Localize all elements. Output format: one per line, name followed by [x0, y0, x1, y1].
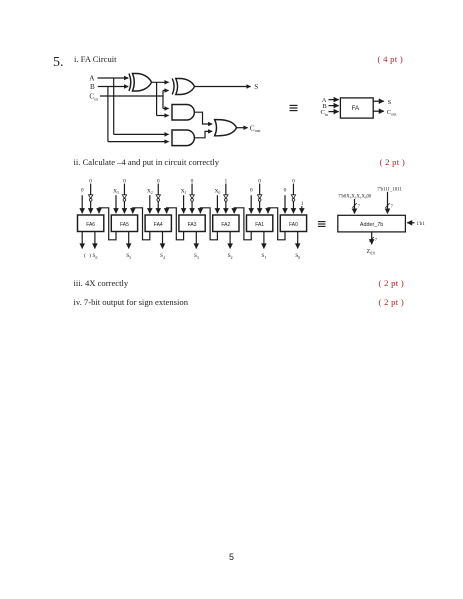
inverter on FA0 middle input — [291, 195, 295, 201]
wire A to XOR1 — [98, 77, 129, 79]
inverter on FA5 middle input — [122, 195, 126, 201]
wire Cin to XOR2 lower — [163, 90, 169, 92]
svg-text:Adder_7b: Adder_7b — [360, 222, 383, 228]
svg-text:7: 7 — [391, 203, 394, 208]
wire carry from FA0 to FA1 — [268, 208, 285, 240]
svg-text:S2: S2 — [228, 253, 233, 260]
xor gate U1 (A xor B) — [129, 74, 152, 92]
svg-text:Cout: Cout — [387, 109, 398, 117]
inverter on FA6 middle input — [88, 195, 92, 201]
wire carry-in 1'b1 — [407, 222, 414, 224]
svg-text:7: 7 — [375, 237, 378, 242]
svg-text:Cin: Cin — [321, 109, 330, 117]
wire -5 constant bus into adder — [387, 192, 389, 214]
wire FA6 middle input — [90, 184, 92, 214]
xor gate U2 (sum) — [172, 79, 194, 95]
points (4 pt) — [378, 54, 404, 64]
wire S output — [195, 86, 251, 88]
wire FA6 sum output — [94, 232, 96, 249]
svg-text:X3: X3 — [113, 189, 119, 196]
wire A to AND2 upper — [114, 133, 169, 135]
wire FA1 left input — [250, 195, 252, 213]
wire FA2 middle input — [225, 184, 227, 214]
points (2 pt) — [379, 297, 405, 307]
svg-text:0: 0 — [191, 178, 194, 184]
wire FA3 left input — [183, 195, 185, 213]
equivalence symbol — [290, 105, 298, 110]
svg-text:S4: S4 — [160, 253, 165, 260]
wire B into FA box — [329, 105, 339, 107]
svg-text:0: 0 — [250, 188, 253, 194]
inverter on FA3 middle input — [190, 195, 194, 201]
adder block Adder_7b — [338, 215, 406, 232]
svg-text:Cout: Cout — [250, 124, 261, 133]
question number 5 — [53, 55, 64, 71]
wire FA5 middle input — [123, 184, 125, 214]
wire carry from FA2 to FA3 — [200, 208, 217, 240]
svg-text:0: 0 — [258, 178, 261, 184]
svg-text:7'b0X3X2X1X000: 7'b0X3X2X1X000 — [338, 194, 372, 199]
wire FA0 sum output — [297, 232, 299, 249]
points (2 pt) — [379, 278, 405, 288]
full-adder block FA4 — [145, 215, 171, 232]
svg-text:1'b1: 1'b1 — [416, 222, 425, 227]
svg-text:FA5: FA5 — [120, 222, 129, 228]
svg-text:A: A — [89, 75, 95, 83]
wire FA1 sum output — [263, 232, 265, 249]
svg-text:X0: X0 — [215, 189, 221, 196]
wire carry from FA3 to FA4 — [167, 208, 184, 240]
inverter on FA2 middle input — [224, 195, 228, 201]
wire FA4 left input — [149, 195, 151, 213]
svg-text:Z6:0: Z6:0 — [367, 249, 376, 256]
svg-text:0: 0 — [89, 178, 92, 184]
wire XOR1 out tap down — [156, 82, 158, 115]
wire FA5 sum output — [128, 232, 130, 249]
svg-text:S1: S1 — [261, 253, 266, 260]
wire A into FA box — [329, 99, 339, 101]
full-adder block FA0 — [280, 215, 306, 232]
wire Cin into FA box — [329, 111, 339, 113]
svg-text:FA6: FA6 — [86, 222, 95, 228]
svg-text:0: 0 — [292, 178, 295, 184]
wire FA0 middle input — [292, 184, 294, 214]
wire A tap down — [113, 78, 115, 134]
svg-text:0: 0 — [81, 188, 84, 194]
svg-text:FA0: FA0 — [289, 222, 298, 228]
svg-text:1: 1 — [224, 178, 227, 184]
wire Cout output — [237, 127, 248, 129]
wire Z output bus — [371, 232, 373, 244]
svg-text:( ): ( ) — [84, 252, 91, 259]
full-adder block FA6 — [78, 215, 104, 232]
svg-text:0: 0 — [123, 178, 126, 184]
wire B to XOR1 — [98, 86, 128, 88]
svg-text:B: B — [90, 83, 95, 91]
wire AND1 out to OR — [194, 112, 212, 124]
svg-text:X1: X1 — [181, 189, 187, 196]
bus slash constant — [385, 203, 389, 208]
or gate U5 (carry out) — [215, 120, 237, 136]
svg-text:Cin: Cin — [89, 93, 98, 102]
wire FA0 carry-in 1 — [301, 206, 303, 213]
wire 4X bus into adder — [354, 199, 356, 214]
full-adder block FA2 — [213, 215, 239, 232]
wire FA4 middle input — [157, 184, 159, 214]
full-adder block FA1 — [247, 215, 273, 232]
full-adder block FA3 — [179, 215, 205, 232]
wire XOR1 out to XOR2 upper — [152, 81, 169, 83]
svg-text:FA3: FA3 — [188, 222, 197, 228]
wire carry from FA4 to FA5 — [133, 208, 150, 240]
points (2 pt) — [380, 157, 406, 167]
wire FA5 left input — [115, 195, 117, 213]
inverter on FA4 middle input — [156, 195, 160, 201]
page number — [229, 552, 234, 562]
heading i. FA Circuit — [74, 54, 117, 64]
wire FA2 sum output — [229, 232, 231, 249]
wire FA6 carry-out (unused) — [81, 232, 83, 249]
svg-text:S5: S5 — [126, 253, 131, 260]
svg-text:0: 0 — [284, 188, 287, 194]
wire FA1 middle input — [259, 184, 261, 214]
svg-text:S6: S6 — [92, 253, 97, 260]
svg-text:S0: S0 — [295, 253, 300, 260]
equivalence symbol — [318, 222, 326, 227]
heading iv — [74, 297, 189, 307]
and gate U3 (Cin AND P) — [172, 105, 194, 121]
heading ii — [74, 157, 220, 167]
wire Cin horizontal — [100, 95, 163, 97]
bus slash 4X — [352, 203, 356, 208]
wire carry from FA1 to FA2 — [234, 208, 251, 240]
svg-text:7'b111_1011: 7'b111_1011 — [377, 187, 402, 192]
svg-text:FA4: FA4 — [154, 222, 163, 228]
svg-text:0: 0 — [157, 178, 160, 184]
svg-text:FA2: FA2 — [221, 222, 230, 228]
wire FA0 left input — [284, 195, 286, 213]
svg-text:S: S — [254, 83, 258, 91]
svg-text:FA: FA — [352, 105, 360, 112]
wire FA3 middle input — [191, 184, 193, 214]
inverter on FA1 middle input — [257, 195, 261, 201]
wire FA3 sum output — [195, 232, 197, 249]
wire FA2 left input — [216, 195, 218, 213]
wire carry from FA5 to FA6 — [99, 208, 116, 240]
svg-text:FA1: FA1 — [255, 222, 264, 228]
bus slash Z — [370, 237, 374, 242]
full-adder block FA5 — [111, 215, 137, 232]
wire FA4 sum output — [162, 232, 164, 249]
wire Cin to AND1 upper — [163, 108, 169, 110]
heading iii — [74, 278, 129, 288]
svg-text:S3: S3 — [194, 253, 199, 260]
wire XOR1 out to AND1 lower — [157, 115, 169, 117]
wire B to AND2 lower — [108, 141, 169, 143]
svg-text:S: S — [388, 99, 392, 106]
wire FA6 left input — [81, 195, 83, 213]
wire Cin vertical branch — [162, 91, 164, 109]
svg-text:7: 7 — [358, 203, 361, 208]
and gate U4 (A AND B) — [172, 130, 194, 146]
wire AND2 out to OR — [194, 131, 212, 137]
wire Cout out of FA box — [373, 110, 384, 112]
FA block U6 — [340, 98, 373, 118]
wire B tap down — [107, 87, 109, 142]
wire S out of FA box — [373, 100, 384, 102]
svg-text:1: 1 — [301, 201, 304, 207]
svg-text:X2: X2 — [147, 189, 153, 196]
